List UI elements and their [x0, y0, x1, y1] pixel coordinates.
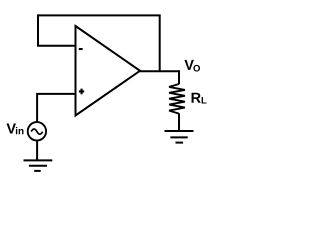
wire: feedback left vertical [37, 15, 39, 45]
wire: feedback right vertical [159, 15, 161, 71]
ground (left, at Vin) [24, 160, 53, 171]
source Vin [28, 122, 46, 140]
ground (right, at RL) [165, 131, 194, 143]
wire: feedback top rail [37, 14, 161, 16]
resistor RL [169, 70, 185, 131]
wire: output [139, 70, 179, 72]
label Vin [6, 124, 23, 135]
op-amp U1 [76, 26, 141, 116]
label Vo [184, 60, 200, 72]
op-amp inverting pin marker (-) [79, 48, 83, 50]
wire: inverting input [37, 45, 76, 47]
label RL [192, 93, 207, 104]
op-amp non-inverting pin marker (+) [79, 89, 84, 95]
wire: source bottom lead [36, 140, 38, 160]
wire: non-inverting input [37, 94, 75, 122]
